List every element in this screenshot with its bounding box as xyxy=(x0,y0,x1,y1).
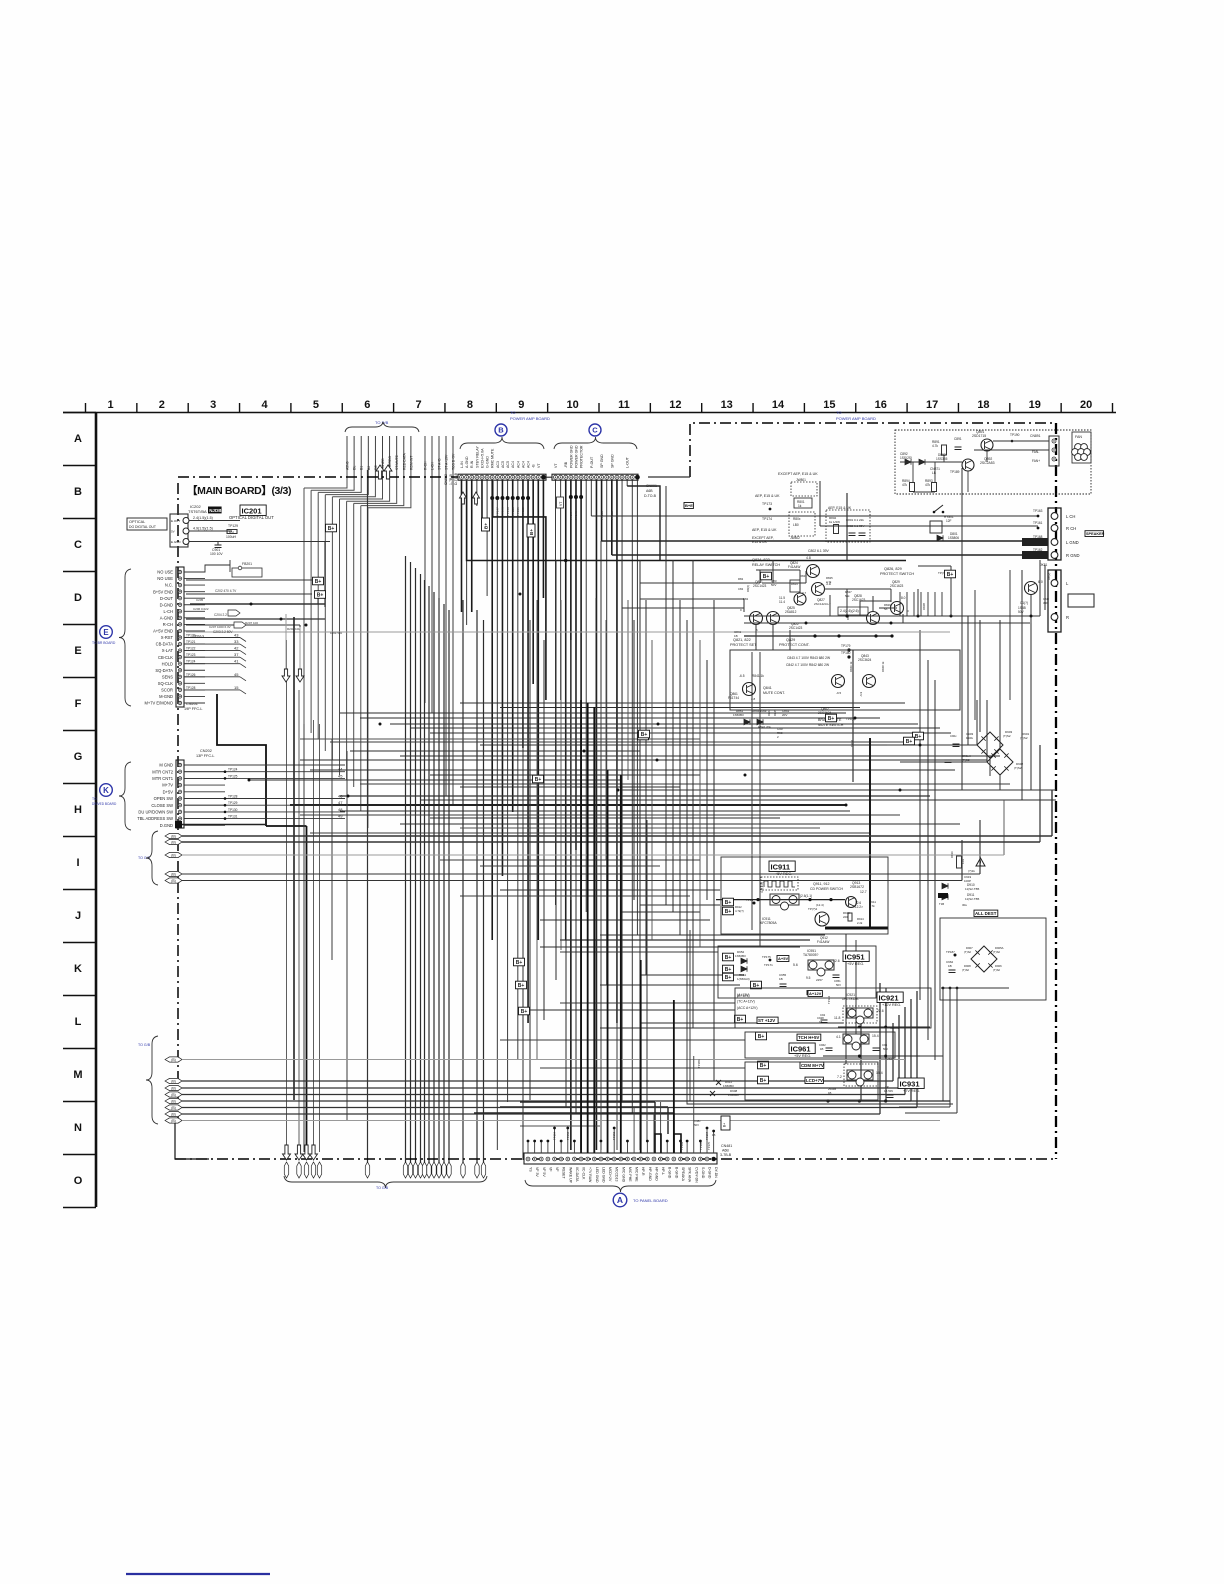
svg-text:L-IN: L-IN xyxy=(460,461,464,468)
svg-text:TP163: TP163 xyxy=(1033,509,1043,513)
svg-text:TP153: TP153 xyxy=(612,1131,616,1140)
IC921 regulator dashed xyxy=(843,1006,877,1023)
svg-text:F: F xyxy=(75,698,82,710)
optical out box xyxy=(127,518,167,530)
brace top fan xyxy=(345,422,419,432)
svg-text:A+12V: A+12V xyxy=(809,991,822,996)
svg-text:1S50B3: 1S50B3 xyxy=(728,1093,739,1097)
svg-text:SQ-DATA: SQ-DATA xyxy=(155,668,173,673)
svg-text:TP1B6: TP1B6 xyxy=(697,1059,701,1068)
svg-text:12.6: 12.6 xyxy=(833,959,840,963)
svg-text:R90x: R90x xyxy=(966,736,974,740)
svg-text:SP GND: SP GND xyxy=(600,454,604,468)
svg-text:ST-MUTE: ST-MUTE xyxy=(395,454,399,470)
svg-text:(T)S2: (T)S2 xyxy=(993,950,1000,954)
svg-text:Q824, 823: Q824, 823 xyxy=(752,558,770,562)
svg-text:B+: B+ xyxy=(725,900,732,906)
svg-text:TP124: TP124 xyxy=(228,768,238,772)
svg-text:TP161: TP161 xyxy=(1033,521,1043,525)
svg-text:A+5V END: A+5V END xyxy=(153,629,173,634)
board outline chain right xyxy=(1055,423,1057,1159)
board outline chain border top-left to connector B xyxy=(178,476,458,478)
svg-text:TP124: TP124 xyxy=(186,660,196,664)
relay RY801 xyxy=(934,505,943,512)
svg-text:AEP, E15 & UK: AEP, E15 & UK xyxy=(755,494,780,498)
svg-text:2SC1423: 2SC1423 xyxy=(753,584,767,588)
LCD+7V boxed xyxy=(805,1077,823,1083)
svg-text:11(S2-TB5: 11(S2-TB5 xyxy=(965,887,980,891)
svg-text:LED GND: LED GND xyxy=(595,1167,599,1183)
IC931 box label xyxy=(898,1078,924,1089)
top ruler ticks and numbers xyxy=(85,403,87,413)
reference circle B xyxy=(495,424,507,436)
svg-text:4.7k: 4.7k xyxy=(869,904,875,908)
svg-text:(B): (B) xyxy=(171,1100,176,1104)
svg-text:+5V REG.: +5V REG. xyxy=(847,962,864,966)
svg-text:R: R xyxy=(1066,615,1069,620)
svg-text:11.4: 11.4 xyxy=(779,600,785,604)
svg-text:IC931: IC931 xyxy=(900,1080,920,1089)
B+ box IC961 xyxy=(756,1032,767,1040)
connector CN202 strip xyxy=(176,760,184,828)
svg-text:POWER GND: POWER GND xyxy=(574,445,578,468)
I bus row 2 xyxy=(165,839,182,844)
svg-text:5.6: 5.6 xyxy=(793,963,798,967)
svg-text:(T)S2: (T)S2 xyxy=(1003,734,1011,738)
jumper JW802 dashed box xyxy=(789,512,815,536)
svg-text:CDM M+7V: CDM M+7V xyxy=(801,1063,824,1068)
IC951 regulator xyxy=(808,960,834,970)
M bus row 1 xyxy=(165,1057,182,1062)
svg-text:FAN+: FAN+ xyxy=(1032,459,1040,463)
svg-text:S-GND: S-GND xyxy=(701,1167,705,1179)
B+ box CDM xyxy=(758,1061,769,1069)
svg-text:B+: B+ xyxy=(317,592,324,598)
IC911 regulator outline xyxy=(770,894,799,905)
connector CN902 strip B xyxy=(458,474,546,480)
svg-text:TP154: TP154 xyxy=(553,1131,557,1140)
svg-text:Q911, 912: Q911, 912 xyxy=(813,882,830,886)
IC961 box label xyxy=(789,1043,815,1054)
svg-text:-6.9: -6.9 xyxy=(859,691,863,697)
svg-text:(B): (B) xyxy=(171,1087,176,1091)
svg-text:NO USE: NO USE xyxy=(157,570,173,575)
svg-text:DG DIGITAL OUT: DG DIGITAL OUT xyxy=(129,525,156,529)
svg-text:15: 15 xyxy=(234,685,239,690)
svg-text:B2: B2 xyxy=(367,466,371,470)
transistor Q829b xyxy=(891,602,904,615)
B+ boxes IC911 xyxy=(723,898,734,906)
svg-text:R845: R845 xyxy=(773,709,777,716)
svg-text:R207 100: R207 100 xyxy=(245,621,258,625)
svg-text:30u: 30u xyxy=(962,903,967,907)
brace over connector C xyxy=(554,437,637,449)
svg-text:M-GND: M-GND xyxy=(159,694,173,699)
svg-text:RED-DATA: RED-DATA xyxy=(402,452,406,470)
svg-text:16: 16 xyxy=(875,399,887,411)
svg-text:49: 49 xyxy=(338,814,343,819)
svg-text:L CH: L CH xyxy=(1066,514,1075,519)
svg-text:FAN: FAN xyxy=(1075,435,1082,439)
svg-text:(B): (B) xyxy=(171,879,176,883)
svg-text:R82: R82 xyxy=(738,577,744,581)
svg-text:B+: B+ xyxy=(535,777,542,783)
svg-text:HP-GND: HP-GND xyxy=(654,1167,658,1181)
svg-text:CB-DATA: CB-DATA xyxy=(156,642,174,647)
svg-text:B+: B+ xyxy=(947,572,954,578)
black code box xyxy=(208,507,222,514)
IC931 regulator dashed xyxy=(844,1064,878,1086)
svg-text:TP147: TP147 xyxy=(569,511,573,520)
caps near bridge xyxy=(953,744,960,747)
svg-text:Q841: Q841 xyxy=(763,686,772,690)
svg-text:50V: 50V xyxy=(1018,610,1025,614)
svg-text:CN202: CN202 xyxy=(200,749,212,753)
svg-text:IC961: IC961 xyxy=(791,1045,811,1054)
svg-text:M: M xyxy=(73,1069,82,1081)
svg-text:11(S2-TB5: 11(S2-TB5 xyxy=(965,897,980,901)
svg-text:PROTECT SET: PROTECT SET xyxy=(730,643,757,647)
svg-text:IIC-CLK: IIC-CLK xyxy=(582,1167,586,1180)
fan symbol xyxy=(1072,432,1091,463)
svg-text:D-TO-B: D-TO-B xyxy=(454,472,458,485)
bridge rectifier D90xA xyxy=(987,749,1013,775)
box outline brake region xyxy=(699,659,701,661)
svg-text:(T)S2: (T)S2 xyxy=(964,950,971,954)
svg-text:C802 6.1 39V: C802 6.1 39V xyxy=(846,524,864,528)
svg-text:R CH: R CH xyxy=(1066,526,1076,531)
svg-text:E: E xyxy=(74,645,81,657)
svg-text:C91: C91 xyxy=(961,858,965,864)
svg-text:6.0: 6.0 xyxy=(1038,580,1043,584)
svg-text:STBY RELAY: STBY RELAY xyxy=(475,446,479,468)
svg-text:1-7B-B: 1-7B-B xyxy=(449,473,453,485)
svg-text:1k 1/2W: 1k 1/2W xyxy=(829,520,840,524)
B+ box above CN481 xyxy=(721,1116,730,1130)
white box near jack xyxy=(1068,594,1094,607)
svg-text:TP195: TP195 xyxy=(699,1141,703,1150)
A+12V boxed top xyxy=(806,991,808,995)
junction dots mesh xyxy=(250,603,253,606)
svg-text:TP130: TP130 xyxy=(228,808,238,812)
svg-text:TP187: TP187 xyxy=(946,950,955,954)
IC921 box label xyxy=(877,992,903,1003)
svg-text:2SC1623: 2SC1623 xyxy=(890,584,904,588)
svg-text:N.C.: N.C. xyxy=(165,583,173,588)
svg-text:1(S50A3): 1(S50A3) xyxy=(737,977,750,981)
fan connector CN891 xyxy=(1049,436,1059,466)
svg-text:L-OUT: L-OUT xyxy=(626,456,630,468)
svg-text:R82B: R82B xyxy=(922,603,926,610)
svg-text:B+: B+ xyxy=(760,1078,767,1084)
reference circle A xyxy=(613,1193,627,1207)
svg-text:R-CH: R-CH xyxy=(424,461,428,470)
svg-text:B: B xyxy=(498,426,504,435)
svg-text:TO: TO xyxy=(836,410,841,415)
svg-text:15.4: 15.4 xyxy=(872,1034,879,1038)
svg-text:2SC1423: 2SC1423 xyxy=(789,626,803,630)
M bus row 6 xyxy=(165,1105,182,1110)
svg-text:O: O xyxy=(74,1175,83,1187)
brace over connector B xyxy=(460,437,544,449)
svg-text:+12V REG.: +12V REG. xyxy=(882,1003,901,1007)
svg-text:SPEAKA: SPEAKA xyxy=(681,1167,685,1182)
svg-text:MTR CNT1: MTR CNT1 xyxy=(152,776,173,781)
svg-text:ST +12V: ST +12V xyxy=(758,1018,775,1023)
svg-text:(B): (B) xyxy=(171,854,176,858)
D.GND black square pin xyxy=(175,821,182,828)
svg-text:ST A+15V: ST A+15V xyxy=(445,454,449,470)
svg-text:1S50B3: 1S50B3 xyxy=(735,954,746,958)
svg-text:-B: -B xyxy=(532,464,536,468)
svg-text:X-RST: X-RST xyxy=(161,635,174,640)
svg-text:G: G xyxy=(74,751,83,763)
svg-text:TO: TO xyxy=(510,410,515,415)
svg-text:(B): (B) xyxy=(171,873,176,877)
svg-text:WAKE UP: WAKE UP xyxy=(568,1167,572,1184)
svg-text:(B): (B) xyxy=(171,835,176,839)
svg-text:1B: 1B xyxy=(948,964,952,968)
svg-text:42: 42 xyxy=(234,646,239,651)
svg-text:15: 15 xyxy=(823,399,835,411)
svg-text:1S50B3: 1S50B3 xyxy=(733,713,744,717)
svg-text:ST A+B: ST A+B xyxy=(438,458,442,470)
svg-text:PROTECT CONT.: PROTECT CONT. xyxy=(779,643,810,647)
svg-text:48: 48 xyxy=(338,807,343,812)
svg-text:2257: 2257 xyxy=(816,978,823,982)
svg-text:TP129: TP129 xyxy=(228,801,238,805)
svg-text:1B: 1B xyxy=(820,1047,824,1051)
transistor Q911 xyxy=(815,912,829,926)
svg-text:2.4(1.5)(1.5): 2.4(1.5)(1.5) xyxy=(193,516,213,520)
svg-text:FB201: FB201 xyxy=(242,562,252,566)
svg-text:11: 11 xyxy=(618,399,630,411)
svg-text:L: L xyxy=(75,1016,82,1028)
svg-text:(T)S2: (T)S2 xyxy=(1020,736,1028,740)
svg-text:B+: B+ xyxy=(315,579,322,585)
svg-text:12: 12 xyxy=(669,399,681,411)
svg-text:2SC3624: 2SC3624 xyxy=(858,658,872,662)
svg-text:RDM-INT: RDM-INT xyxy=(409,456,413,470)
svg-text:4: 4 xyxy=(261,399,268,411)
svg-text:TP122: TP122 xyxy=(186,647,196,651)
svg-text:C891: C891 xyxy=(954,437,962,441)
svg-text:VT: VT xyxy=(559,502,563,506)
IC911 rail wire xyxy=(716,899,845,901)
svg-text:1: 1 xyxy=(107,399,113,411)
svg-text:Q829: Q829 xyxy=(786,638,795,642)
svg-text:VF 3V: VF 3V xyxy=(535,1167,539,1177)
diode D910 xyxy=(942,883,948,889)
svg-text:TA78005?: TA78005? xyxy=(803,953,819,957)
svg-text:VF 5V: VF 5V xyxy=(542,1167,546,1177)
svg-text:17: 17 xyxy=(926,399,938,411)
svg-text:1B: 1B xyxy=(712,1133,716,1137)
svg-text:B+5V END: B+5V END xyxy=(153,589,173,594)
thick output line xyxy=(825,927,888,930)
svg-text:LED GND: LED GND xyxy=(601,1167,605,1183)
svg-text:C90x: C90x xyxy=(950,734,957,738)
svg-text:+5V REG.: +5V REG. xyxy=(775,872,792,876)
svg-text:A: A xyxy=(74,433,82,445)
IC921 bottom rail xyxy=(838,1026,930,1028)
connector CN901 strip C xyxy=(552,474,638,480)
svg-text:TST6T/BA: TST6T/BA xyxy=(188,509,207,514)
svg-text:IC921: IC921 xyxy=(879,994,899,1003)
B+ box relay xyxy=(761,572,772,580)
brace connector K xyxy=(119,762,131,830)
svg-text:4.8: 4.8 xyxy=(806,556,811,560)
svg-text:H: H xyxy=(74,804,82,816)
svg-text:R846 1k: R846 1k xyxy=(849,661,853,672)
fan wires xyxy=(900,461,962,463)
svg-text:TP147: TP147 xyxy=(496,507,500,516)
svg-text:G-GND: G-GND xyxy=(486,456,490,468)
svg-text:8: 8 xyxy=(467,399,473,411)
svg-text:MUTE SWITCH: MUTE SWITCH xyxy=(818,723,844,727)
B+ and ST+12V boxes xyxy=(735,1015,746,1023)
bottom rule blue line xyxy=(126,1573,270,1575)
svg-text:2.2k: 2.2k xyxy=(857,921,863,925)
svg-text:MCD+2V: MCD+2V xyxy=(608,1167,612,1182)
svg-text:TP189: TP189 xyxy=(950,470,960,474)
wire C connector to border xyxy=(648,476,690,478)
svg-text:D-TO-B: D-TO-B xyxy=(644,494,657,498)
svg-text:NO USE: NO USE xyxy=(157,576,173,581)
svg-text:F41A4W: F41A4W xyxy=(788,565,800,569)
B+ boxes IC951 xyxy=(723,965,734,973)
optical connector xyxy=(170,514,188,547)
IC961 bottom rail xyxy=(823,1055,920,1057)
svg-text:B+: B+ xyxy=(828,716,835,722)
svg-text:1SS(2S): 1SS(2S) xyxy=(900,456,912,460)
double arrows crossing border xyxy=(376,465,384,479)
waveform dashed box xyxy=(761,877,798,890)
svg-text:1S5806: 1S5806 xyxy=(948,536,959,540)
bridge rectifier D901-904 xyxy=(977,732,1003,758)
svg-text:(B): (B) xyxy=(171,1113,176,1117)
vertical resistor top right xyxy=(957,856,962,868)
svg-text:HOLD: HOLD xyxy=(162,661,173,666)
svg-text:CN481: CN481 xyxy=(721,1144,732,1148)
reference circle C xyxy=(589,424,601,436)
svg-text:12F: 12F xyxy=(946,519,952,523)
connector CN481 strip A xyxy=(524,1153,717,1164)
svg-text:D.GND: D.GND xyxy=(160,823,173,828)
IC201 box label xyxy=(240,505,266,516)
svg-text:39P: 39P xyxy=(1043,601,1048,605)
svg-text:K: K xyxy=(103,786,109,795)
fan circuit dotted box xyxy=(895,430,1091,494)
svg-text:R916: R916 xyxy=(950,851,954,858)
brace M rows xyxy=(146,1036,158,1124)
svg-text:AC3: AC3 xyxy=(496,461,500,468)
svg-text:R-IN: R-IN xyxy=(470,460,474,468)
svg-text:R823: R823 xyxy=(800,574,807,578)
bridge connect wires xyxy=(887,744,977,746)
svg-text:SPEAKER: SPEAKER xyxy=(1086,532,1105,536)
brace below connector A xyxy=(525,1180,716,1192)
B+ boxes scattered left xyxy=(313,577,324,585)
svg-text:R GND: R GND xyxy=(1066,553,1080,558)
svg-text:B+: B+ xyxy=(328,526,335,532)
svg-text:TO G/B: TO G/B xyxy=(138,1043,151,1047)
IC961 regulator xyxy=(843,1034,869,1044)
svg-text:(T)S2: (T)S2 xyxy=(962,758,970,762)
svg-text:DY-DN: DY-DN xyxy=(714,1167,718,1178)
transistor Q825 xyxy=(794,593,806,605)
transistor Q892 xyxy=(962,459,974,471)
svg-text:B+: B+ xyxy=(529,529,534,535)
svg-text:TP128: TP128 xyxy=(228,795,238,799)
protect switch drop verticals xyxy=(899,592,901,616)
svg-text:R202 10k: R202 10k xyxy=(287,627,300,631)
svg-text:(12.4): (12.4) xyxy=(816,903,824,907)
svg-text:CLOSE SW: CLOSE SW xyxy=(151,803,173,808)
svg-text:POWER AMP BOARD: POWER AMP BOARD xyxy=(510,416,550,421)
speaker terminal strip xyxy=(1048,508,1061,560)
svg-text:4.9(1.5): 4.9(1.5) xyxy=(760,882,764,893)
svg-text:1k: 1k xyxy=(798,504,802,508)
svg-text:A-GND: A-GND xyxy=(465,456,469,468)
svg-text:DL: DL xyxy=(353,466,357,470)
svg-text:IC911: IC911 xyxy=(771,863,791,872)
svg-text:B+: B+ xyxy=(516,960,523,966)
svg-text:TP151: TP151 xyxy=(516,507,520,516)
M bus row 5 xyxy=(165,1098,182,1103)
svg-text:(?)1k: (?)1k xyxy=(968,869,975,873)
svg-text:CB-CLK: CB-CLK xyxy=(158,655,173,660)
svg-text:R80x: R80x xyxy=(793,517,801,521)
svg-text:TP123: TP123 xyxy=(186,653,196,657)
IC951 cluster outline xyxy=(718,946,876,998)
svg-text:OPTICAL DIGITAL OUT: OPTICAL DIGITAL OUT xyxy=(229,515,274,520)
svg-text:TCH H+5V: TCH H+5V xyxy=(798,1035,819,1040)
svg-text:F61T44: F61T44 xyxy=(728,696,739,700)
D951 diodes left xyxy=(723,953,734,961)
boxed label left xyxy=(684,503,693,509)
I bus row 1 xyxy=(165,833,182,838)
svg-text:+7V REG.: +7V REG. xyxy=(903,1089,920,1093)
M bus row 8 xyxy=(165,1118,182,1123)
svg-text:(B): (B) xyxy=(171,1119,176,1123)
bridge rectifier D905-908 xyxy=(971,946,997,972)
svg-text:MIC PHE: MIC PHE xyxy=(635,1167,639,1182)
svg-text:45: 45 xyxy=(234,672,239,677)
svg-text:HP-GND: HP-GND xyxy=(648,1167,652,1181)
svg-text:L-CH: L-CH xyxy=(163,609,173,614)
svg-text:ALL DEST: ALL DEST xyxy=(975,911,997,916)
svg-text:C843 4.7 100V R843 680 2W: C843 4.7 100V R843 680 2W xyxy=(787,656,831,660)
svg-text:C802 6.1 39V: C802 6.1 39V xyxy=(808,549,829,553)
svg-text:TP179: TP179 xyxy=(841,644,851,648)
svg-text:N: N xyxy=(74,1122,82,1134)
svg-text:B+: B+ xyxy=(723,1123,727,1127)
svg-text:B+: B+ xyxy=(906,739,913,745)
svg-text:AC4: AC4 xyxy=(516,461,520,468)
svg-text:3-7B-B: 3-7B-B xyxy=(720,1153,732,1157)
I bus row 5 xyxy=(165,878,182,883)
svg-text:-9.5: -9.5 xyxy=(836,691,842,695)
board outline chain border left xyxy=(177,483,179,1120)
svg-text:D+5V: D+5V xyxy=(163,789,174,794)
svg-text:A6B: A6B xyxy=(646,489,653,493)
transistors Q821 Q822 xyxy=(750,612,763,625)
svg-text:RB(2): RB(2) xyxy=(1047,573,1051,580)
svg-text:B: B xyxy=(74,486,82,498)
svg-text:TO: TO xyxy=(92,797,97,801)
svg-text:(B): (B) xyxy=(171,1058,176,1062)
